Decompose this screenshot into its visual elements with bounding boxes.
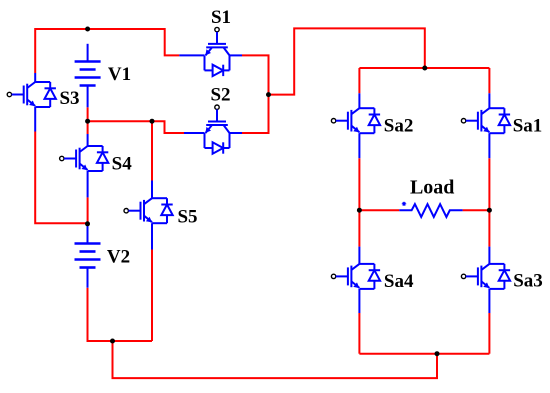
Sa3 emitter lead — [488, 289, 490, 313]
transistor Sa2 — [331, 108, 380, 133]
V2 top lead — [87, 224, 89, 244]
svg-text:V2: V2 — [107, 247, 130, 268]
svg-text:S1: S1 — [211, 7, 231, 28]
V2 bottom lead — [87, 268, 89, 288]
wire S2 right to node E — [242, 95, 269, 133]
S3 collector lead — [34, 73, 36, 82]
S5 emitter lead — [151, 223, 153, 249]
Sa2 collector lead — [358, 93, 360, 108]
svg-text:Load: Load — [410, 177, 454, 199]
S1 right lead — [230, 54, 243, 56]
wire H-bridge top rail — [359, 67, 489, 69]
node H-bridge top junction — [422, 66, 427, 71]
wire V1 bottom to node B — [87, 107, 89, 121]
wire load rail right — [463, 209, 490, 211]
transistor Sa1 — [461, 108, 510, 133]
transistor S5 — [124, 198, 173, 223]
wire bottom link left circuit to H-bridge — [113, 341, 438, 378]
wire S1 right to node E — [242, 55, 269, 94]
Sa3 collector lead — [488, 247, 490, 264]
Sa4 collector lead — [358, 247, 360, 264]
node load left junction — [357, 208, 362, 213]
wire S3 emitter to node D — [35, 132, 87, 224]
wire S4 emitter to node D — [87, 197, 89, 224]
wire node E to H-bridge top — [269, 28, 425, 94]
wire H-bridge left rail lower — [358, 313, 360, 354]
svg-text:S3: S3 — [59, 88, 79, 109]
node bottom-left junction — [110, 339, 115, 344]
S2 left lead — [184, 132, 205, 134]
svg-text:Sa4: Sa4 — [384, 271, 414, 292]
svg-text:Sa2: Sa2 — [384, 115, 414, 136]
transistor S2 — [205, 105, 230, 154]
Sa1 emitter lead — [488, 133, 490, 158]
S2 right lead — [230, 132, 243, 134]
wire H-bridge bottom rail — [359, 353, 489, 355]
wire top-left rail — [35, 29, 179, 73]
wire H-bridge right rail lower — [488, 313, 490, 354]
Sa1 collector lead — [488, 93, 490, 108]
S1 left lead — [179, 54, 204, 56]
wire H-bridge right rail middle — [488, 158, 490, 246]
transistor Sa3 — [461, 264, 510, 289]
svg-text:Sa1: Sa1 — [513, 116, 543, 137]
wire H-bridge left rail middle — [358, 158, 360, 246]
wire V2 bottom to left bottom rail — [88, 288, 153, 341]
wire H-bridge right rail upper — [488, 68, 490, 93]
wire node B to node C — [88, 120, 152, 122]
V1 bottom lead — [87, 86, 89, 108]
svg-text:S2: S2 — [210, 85, 230, 106]
node B junction — [85, 119, 90, 124]
S5 collector lead — [151, 181, 153, 199]
wire node B down to S4 — [87, 121, 89, 134]
transistor S3 — [7, 82, 56, 107]
svg-text:S4: S4 — [112, 154, 133, 175]
wire node C down to S5 — [151, 121, 153, 180]
battery V1 — [75, 62, 101, 86]
node C junction — [150, 119, 155, 124]
V1 top lead — [87, 44, 89, 62]
node load right junction — [487, 208, 492, 213]
battery V2 — [75, 244, 101, 268]
node H-bridge bottom junction — [435, 351, 440, 356]
wire S5 emitter down — [151, 250, 153, 342]
wire node C to S2 left — [152, 121, 184, 133]
S4 emitter lead — [87, 171, 89, 197]
wire H-bridge left rail upper — [358, 68, 360, 93]
transistor Sa4 — [331, 264, 380, 289]
Sa2 emitter lead — [358, 133, 360, 158]
S4 collector lead — [87, 134, 89, 146]
load polarity mark — [402, 202, 406, 206]
Sa4 emitter lead — [358, 289, 360, 313]
wire load rail left — [359, 209, 399, 211]
svg-text:S5: S5 — [177, 207, 197, 228]
S3 emitter lead — [34, 107, 36, 132]
transistor S1 — [205, 27, 230, 76]
node E junction — [266, 92, 271, 97]
resistor Load — [399, 204, 462, 217]
node D junction — [85, 221, 90, 226]
svg-text:V1: V1 — [108, 64, 131, 85]
node V1 top junction — [85, 27, 90, 32]
transistor S4 — [60, 146, 109, 171]
svg-text:Sa3: Sa3 — [513, 271, 543, 292]
